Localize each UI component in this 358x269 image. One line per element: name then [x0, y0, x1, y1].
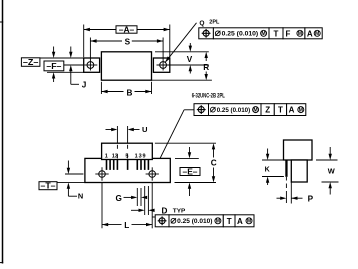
svg-text:–A–: –A– [119, 25, 135, 34]
svg-text:13: 13 [112, 154, 118, 160]
svg-text:M: M [247, 219, 251, 225]
svg-text:–E–: –E– [183, 168, 199, 177]
svg-text:N: N [78, 191, 83, 200]
svg-text:T: T [274, 29, 279, 38]
svg-text:2PL: 2PL [209, 19, 220, 25]
svg-text:F: F [285, 29, 290, 38]
svg-text:TYP: TYP [173, 209, 186, 215]
svg-text:U: U [142, 125, 148, 134]
svg-text:–F–: –F– [46, 62, 62, 71]
svg-text:M: M [315, 31, 319, 37]
svg-text:M: M [298, 31, 302, 37]
svg-text:S: S [125, 38, 131, 47]
svg-text:P: P [308, 195, 314, 204]
svg-text:0.25 (0.010): 0.25 (0.010) [177, 218, 212, 225]
svg-text:R: R [203, 63, 209, 72]
svg-text:Q: Q [199, 20, 204, 27]
svg-text:A: A [307, 29, 313, 38]
svg-text:W: W [328, 167, 335, 176]
svg-text:G: G [116, 194, 122, 203]
svg-text:1: 1 [105, 154, 108, 160]
svg-text:T: T [278, 106, 283, 115]
svg-text:–T–: –T– [41, 182, 57, 191]
svg-text:M: M [253, 108, 257, 114]
svg-text:Z: Z [265, 106, 270, 115]
svg-text:L: L [124, 221, 129, 230]
svg-text:3: 3 [139, 154, 142, 160]
svg-text:6-32UNC-2B 2PL: 6-32UNC-2B 2PL [192, 94, 225, 100]
svg-text:T: T [227, 217, 232, 226]
svg-text:9: 9 [142, 154, 145, 160]
svg-text:V: V [187, 55, 193, 64]
svg-text:C: C [211, 159, 217, 168]
svg-text:0.25 (0.010): 0.25 (0.010) [217, 107, 251, 114]
svg-text:B: B [126, 89, 132, 98]
svg-text:A: A [289, 106, 295, 115]
svg-text:1: 1 [135, 154, 138, 160]
svg-text:0.25 (0.010): 0.25 (0.010) [222, 31, 259, 38]
svg-text:M: M [299, 108, 303, 114]
svg-text:A: A [237, 217, 243, 226]
svg-text:J: J [82, 81, 87, 90]
svg-text:K: K [265, 166, 270, 173]
svg-text:–Z–: –Z– [23, 58, 39, 67]
svg-text:D: D [161, 206, 167, 215]
svg-text:M: M [261, 31, 265, 37]
svg-text:M: M [216, 219, 220, 225]
